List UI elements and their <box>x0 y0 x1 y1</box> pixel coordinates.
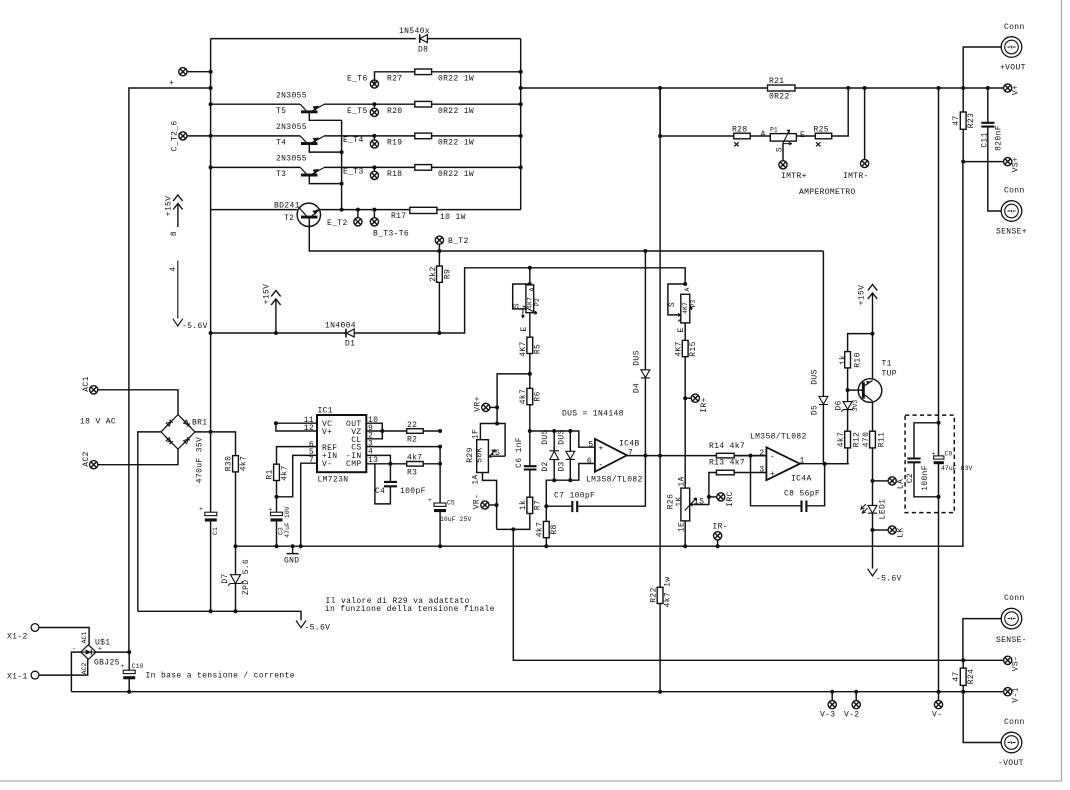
svg-text:IC4A: IC4A <box>791 475 812 484</box>
terminal X1-2 <box>31 624 39 632</box>
transistor T3 <box>209 155 344 186</box>
wire R6 bottom junction <box>529 405 531 467</box>
svg-text:D1: D1 <box>345 340 355 349</box>
trimmer R29 <box>466 422 505 485</box>
svg-text:8: 8 <box>170 231 179 236</box>
wire VS+ row <box>963 161 1003 163</box>
resistor R12 <box>845 431 851 448</box>
wire <box>98 390 178 415</box>
svg-text:P2: P2 <box>534 298 541 306</box>
transistor T4 <box>211 123 344 154</box>
svg-text:4K7: 4K7 <box>519 341 528 356</box>
wire right bus <box>520 39 522 210</box>
node V-2 <box>855 692 857 701</box>
svg-text:CMP: CMP <box>346 460 361 469</box>
wire SENSE+ <box>988 162 1001 211</box>
svg-text:-: - <box>770 453 775 462</box>
svg-text:BR1: BR1 <box>192 419 207 428</box>
wire P2/P3 feed row <box>530 268 685 284</box>
resistor R13 <box>716 470 734 475</box>
svg-text:E_T5: E_T5 <box>347 107 368 116</box>
wire <box>187 71 211 73</box>
svg-text:AC1: AC1 <box>82 376 91 391</box>
wire R13 feed <box>709 473 717 497</box>
svg-text:LM358/TL082: LM358/TL082 <box>586 476 643 485</box>
svg-text:X1-1: X1-1 <box>7 673 28 682</box>
wire C6 bottom to R7 <box>529 470 531 498</box>
svg-text:P3: P3 <box>690 300 697 308</box>
zener D6 <box>835 390 860 431</box>
svg-text:R13 4k7: R13 4k7 <box>709 459 745 468</box>
wire pin4 bracket <box>366 455 390 463</box>
bridge rectifier BR1 <box>161 415 207 450</box>
svg-text:R14 4k7: R14 4k7 <box>709 442 745 451</box>
node V- <box>938 692 940 701</box>
node E_T5 <box>373 104 375 108</box>
resistor R28 <box>734 133 750 139</box>
svg-text:+: + <box>770 470 775 479</box>
wire R29 1A to VR- <box>483 473 497 530</box>
svg-text:47uF 10V: 47uF 10V <box>284 506 291 538</box>
wire T3 emitter row <box>324 166 521 168</box>
wire base row to D5 column <box>439 250 823 252</box>
svg-text:T1: T1 <box>882 360 892 369</box>
svg-text:LK: LK <box>897 527 906 537</box>
resistor R17 <box>410 207 437 213</box>
wire P2 to R5 <box>529 313 531 338</box>
wire +VOUT <box>963 47 1001 88</box>
resistor R22 <box>657 587 663 603</box>
svg-text:C1: C1 <box>212 527 219 535</box>
wire LED to LK row <box>872 513 874 568</box>
capacitor C1 <box>205 512 217 515</box>
svg-text:AC2: AC2 <box>81 663 88 675</box>
svg-text:R23: R23 <box>967 113 976 128</box>
svg-text:0R22 1W: 0R22 1W <box>438 139 474 148</box>
wire C3 bottom <box>276 522 278 547</box>
node IR- <box>714 532 722 540</box>
svg-text:1A: 1A <box>678 476 687 486</box>
svg-text:VS-: VS- <box>1012 656 1021 671</box>
svg-text:V-: V- <box>322 460 332 469</box>
terminal X1-1 <box>31 671 39 679</box>
svg-text:C8 56pF: C8 56pF <box>784 490 820 499</box>
wire IC4A out <box>800 463 849 465</box>
wire VS+/R23 column down to gnd bus <box>962 162 964 547</box>
svg-text:10 1W: 10 1W <box>440 213 466 222</box>
svg-text:+: + <box>169 79 174 88</box>
LED LED1 <box>861 499 888 520</box>
svg-text:4k7: 4k7 <box>519 389 528 404</box>
resistor R10 <box>848 334 873 391</box>
diode D8 <box>399 27 430 55</box>
svg-text:BD241: BD241 <box>274 202 300 211</box>
wire -VOUT <box>963 692 1001 743</box>
svg-text:1S: 1S <box>694 498 704 507</box>
wire <box>660 88 848 136</box>
wire R1 bottom <box>276 481 278 514</box>
trimmer P3 <box>668 282 697 333</box>
svg-text:R19: R19 <box>387 139 402 148</box>
wire R12 bottom to out row <box>825 448 848 464</box>
svg-text:1k: 1k <box>519 500 528 510</box>
supply +15V arrow left <box>165 195 183 236</box>
svg-text:R3: R3 <box>407 469 417 478</box>
svg-text:R12: R12 <box>853 432 862 447</box>
svg-text:1N540x: 1N540x <box>399 27 430 36</box>
svg-text:4K7: 4K7 <box>682 302 689 314</box>
svg-text:4k7: 4k7 <box>281 465 290 480</box>
wire T5 emitter row <box>324 103 521 105</box>
node AC1 <box>90 386 98 394</box>
svg-text:VR+: VR+ <box>474 396 483 411</box>
wire pin10/9/2 bracket <box>366 423 382 439</box>
node B_T3-T6 <box>372 208 376 212</box>
svg-text:R15: R15 <box>689 341 698 356</box>
wire R7 bottom / VR- row <box>497 514 530 530</box>
node AC2 <box>90 461 98 469</box>
svg-text:LED1: LED1 <box>879 499 888 520</box>
resistor R15 <box>682 340 688 356</box>
svg-text:R18: R18 <box>387 170 402 179</box>
wire C1 bottom <box>210 522 212 612</box>
supply -5.6V arrow <box>868 569 878 576</box>
connector SENSE- <box>1001 608 1022 629</box>
op-amp IC4B <box>586 439 643 485</box>
diode D2 <box>541 429 559 480</box>
resistor R5 <box>527 337 533 353</box>
svg-text:+15V: +15V <box>165 196 174 217</box>
svg-text:IMTR-: IMTR- <box>843 172 869 181</box>
svg-text:3: 3 <box>759 465 764 474</box>
pin 4 stub to -5.6V <box>169 261 208 331</box>
wire VS- long column <box>513 529 1003 660</box>
svg-text:IC4B: IC4B <box>619 440 640 449</box>
wire R8 <box>545 506 547 546</box>
transistor T2 <box>211 202 440 252</box>
svg-text:GND: GND <box>284 557 299 566</box>
svg-text:+: + <box>199 506 203 513</box>
svg-text:AMPEROMETRO: AMPEROMETRO <box>799 188 856 197</box>
svg-text:R10: R10 <box>854 352 863 367</box>
supply -5.6V arrow <box>296 621 306 628</box>
svg-text:IR-: IR- <box>713 523 728 532</box>
svg-text:D5: D5 <box>811 405 820 415</box>
svg-text:P1: P1 <box>770 127 778 134</box>
svg-text:4k7: 4k7 <box>240 456 249 471</box>
wire D1 row <box>211 268 530 333</box>
svg-text:470: 470 <box>862 432 871 447</box>
svg-text:-5.6V: -5.6V <box>182 322 208 331</box>
svg-text:2N3055: 2N3055 <box>276 123 307 132</box>
wire R5-R6 junction <box>529 354 531 389</box>
svg-text:Conn: Conn <box>1004 718 1025 727</box>
svg-text:R30: R30 <box>225 456 234 471</box>
svg-text:SENSE+: SENSE+ <box>996 228 1027 237</box>
svg-text:A: A <box>684 287 691 291</box>
svg-text:VS+: VS+ <box>1012 157 1021 172</box>
svg-text:DUS: DUS <box>811 369 820 384</box>
svg-text:AC2: AC2 <box>82 451 91 466</box>
svg-text:R9: R9 <box>444 269 453 279</box>
wire main column down <box>210 333 212 513</box>
svg-text:E_T4: E_T4 <box>343 136 364 145</box>
wire pin6 row <box>546 464 595 507</box>
svg-text:LA: LA <box>897 479 906 489</box>
svg-text:B_T2: B_T2 <box>448 237 469 246</box>
svg-text:1K: 1K <box>675 496 684 506</box>
wire V- bus <box>71 691 1003 693</box>
svg-text:0R22 1W: 0R22 1W <box>438 75 474 84</box>
wire P3 to R15 <box>684 323 686 341</box>
svg-text:Conn: Conn <box>1004 23 1025 32</box>
capacitor C9 <box>934 456 944 459</box>
svg-text:2k2: 2k2 <box>429 266 438 281</box>
resistor R24 <box>962 660 964 691</box>
wire top row <box>211 38 521 40</box>
svg-text:4: 4 <box>169 266 178 271</box>
node IRC <box>707 495 711 499</box>
svg-text:DUS: DUS <box>633 350 642 365</box>
resistor R9 <box>438 251 440 333</box>
wire U$1 plus <box>96 651 129 653</box>
svg-text:T5: T5 <box>276 107 286 116</box>
capacitor C2 <box>914 423 939 497</box>
wire SENSE- <box>963 619 1001 661</box>
svg-text:-5.6V: -5.6V <box>305 624 331 633</box>
capacitor C6 <box>524 466 537 469</box>
capacitor C4 <box>375 464 391 504</box>
resistor R7 <box>527 497 533 513</box>
svg-text:R28: R28 <box>732 126 747 135</box>
wire <box>187 135 211 137</box>
wire pin7 <box>301 463 317 546</box>
wire BR1 plus row <box>195 432 236 456</box>
svg-text:4K7: 4K7 <box>526 297 533 309</box>
svg-text:C10: C10 <box>132 663 144 670</box>
svg-text:B_T3-T6: B_T3-T6 <box>373 230 409 239</box>
trimmer P2 <box>513 268 541 332</box>
svg-text:+: + <box>269 507 273 514</box>
diode D5 <box>811 251 828 464</box>
svg-text:T4: T4 <box>276 139 286 148</box>
wire T1 collector <box>872 402 874 431</box>
resistor R25 <box>815 133 831 139</box>
wire pin3 CS <box>366 446 440 448</box>
wire R30 bottom to gnd bus <box>235 472 237 574</box>
svg-text:+: + <box>121 663 125 670</box>
capacitor C5 <box>439 447 441 547</box>
svg-text:R29: R29 <box>466 447 475 462</box>
wire T2 emitter row <box>320 209 520 211</box>
dashed box <box>905 415 954 512</box>
capacitor C10 <box>128 652 130 692</box>
wire V+ bus <box>521 87 1004 89</box>
svg-text:E: E <box>800 131 805 140</box>
svg-text:4k7: 4k7 <box>837 432 846 447</box>
node IMTR- <box>864 88 866 159</box>
svg-text:R5: R5 <box>534 344 543 354</box>
diode D3 <box>558 429 575 480</box>
svg-text:4k7: 4k7 <box>536 522 545 537</box>
svg-text:LM358/TL082: LM358/TL082 <box>750 433 807 442</box>
node E_T6 <box>370 80 378 88</box>
svg-text:R11: R11 <box>878 432 887 447</box>
svg-text:DUS: DUS <box>558 429 567 444</box>
svg-text:Conn: Conn <box>1004 594 1025 603</box>
svg-text:2N3055: 2N3055 <box>276 92 307 101</box>
node IMTR+ <box>782 144 784 161</box>
resistor R19 <box>415 133 432 139</box>
wire x660 column <box>659 88 661 692</box>
wire gnd bus <box>236 545 963 546</box>
resistor R23 <box>962 88 964 162</box>
svg-text:T2: T2 <box>284 214 294 223</box>
wire D7 bottom / -5.6V row <box>138 584 301 621</box>
svg-text:V-1: V-1 <box>1012 687 1021 702</box>
bridge U$1 <box>72 632 120 675</box>
svg-text:D2: D2 <box>541 461 550 471</box>
supply +15V arrow T1 <box>858 285 878 379</box>
resistor R18 <box>415 165 432 171</box>
wire <box>938 88 940 692</box>
svg-text:0R22 1W: 0R22 1W <box>438 170 474 179</box>
node E_T4 <box>373 136 375 140</box>
svg-text:VR-: VR- <box>473 494 482 509</box>
svg-text:V+: V+ <box>1012 85 1021 95</box>
svg-text:100nF: 100nF <box>921 465 930 491</box>
resistor R2 <box>382 430 440 432</box>
svg-text:R21: R21 <box>769 77 784 86</box>
wire <box>129 88 211 652</box>
op-amp IC4A <box>750 433 812 484</box>
wire <box>98 449 178 465</box>
trimmer R26 <box>667 476 709 532</box>
node B_T2 <box>437 249 441 253</box>
svg-text:In base a tensione / corrente: In base a tensione / corrente <box>146 672 295 681</box>
svg-text:R7: R7 <box>534 500 543 510</box>
wire IC4B out row <box>627 455 767 457</box>
svg-text:C5: C5 <box>447 500 455 507</box>
svg-text:+15V: +15V <box>263 284 272 305</box>
svg-text:3V3: 3V3 <box>852 400 859 412</box>
svg-text:LM723N: LM723N <box>318 476 349 485</box>
svg-text:Conn: Conn <box>1004 187 1025 196</box>
node E_T3 <box>373 167 375 171</box>
svg-text:R22: R22 <box>650 587 659 602</box>
svg-text:S: S <box>668 302 677 307</box>
svg-text:SENSE-: SENSE- <box>996 636 1027 645</box>
wire R26 bottom to gnd bus <box>684 521 686 546</box>
svg-text:2: 2 <box>759 449 764 458</box>
node VR+ <box>490 406 497 408</box>
wire R11 bottom <box>872 448 874 505</box>
capacitor C8 <box>751 456 825 506</box>
svg-text:E_T6: E_T6 <box>347 75 368 84</box>
svg-text:D6: D6 <box>835 400 844 410</box>
node E_T2 <box>356 208 360 212</box>
svg-text:E: E <box>520 326 529 331</box>
svg-text:+: + <box>428 497 432 504</box>
svg-text:2N3055: 2N3055 <box>276 155 307 164</box>
wire VR+ branch <box>497 374 530 424</box>
svg-text:in funzione della tensione fin: in funzione della tensione finale <box>325 605 495 614</box>
wire R15 bottom to R26 <box>684 357 686 488</box>
connector SENSE+ <box>1001 201 1022 222</box>
wire pin6 REF <box>277 447 318 465</box>
svg-text:50K: 50K <box>476 447 485 462</box>
wire R13 to pin3 <box>734 472 766 474</box>
svg-text:+VOUT: +VOUT <box>1000 64 1026 73</box>
svg-text:D8: D8 <box>418 46 428 55</box>
svg-text:1S: 1S <box>490 449 500 458</box>
svg-text:820nF: 820nF <box>995 125 1004 151</box>
wire E_T6 row <box>375 72 521 83</box>
node V+ <box>1004 84 1012 92</box>
svg-text:-: - <box>599 461 604 470</box>
wire T4 emitter row <box>324 135 521 137</box>
svg-text:IRC: IRC <box>726 491 735 506</box>
diode D1 <box>325 322 356 349</box>
svg-text:47: 47 <box>952 671 961 681</box>
svg-text:+: + <box>599 445 604 454</box>
svg-text:R25: R25 <box>814 126 829 135</box>
node VS+ <box>1004 158 1012 166</box>
svg-text:A: A <box>761 130 766 139</box>
svg-text:R20: R20 <box>387 107 402 116</box>
svg-text:1A: 1A <box>472 474 481 484</box>
svg-text:V-3: V-3 <box>820 711 835 720</box>
svg-text:X1-2: X1-2 <box>7 633 28 642</box>
ground GND <box>284 546 299 565</box>
resistor R30 <box>233 456 239 472</box>
svg-text:6: 6 <box>587 457 592 466</box>
svg-text:V+: V+ <box>322 428 332 437</box>
svg-text:4K7: 4K7 <box>675 341 684 356</box>
svg-text:GBJ25: GBJ25 <box>94 659 120 668</box>
svg-text:R27: R27 <box>387 75 402 84</box>
svg-text:D3: D3 <box>558 461 567 471</box>
diode D4 <box>633 251 650 456</box>
resistor R20 <box>415 101 432 107</box>
svg-text:DUS: DUS <box>541 429 550 444</box>
svg-text:A: A <box>529 287 536 291</box>
svg-text:470uF 35V: 470uF 35V <box>196 437 205 483</box>
node LK <box>873 529 889 531</box>
svg-text:R1: R1 <box>266 469 275 479</box>
svg-text:C4: C4 <box>375 487 385 496</box>
svg-text:E_T2: E_T2 <box>327 219 348 228</box>
node + <box>179 68 187 76</box>
svg-text:S: S <box>513 303 522 308</box>
wire R14 to pin2 <box>734 455 766 457</box>
wire <box>39 628 89 645</box>
resistor R21 <box>768 85 796 91</box>
node C_T2_6 <box>179 132 187 140</box>
svg-text:+: + <box>932 451 936 458</box>
svg-text:100pF: 100pF <box>400 487 426 496</box>
capacitor C3 <box>271 512 283 515</box>
svg-text:47: 47 <box>952 115 961 125</box>
svg-text:E_T3: E_T3 <box>343 168 364 177</box>
svg-text:0R22: 0R22 <box>769 93 790 102</box>
wire left bus <box>210 39 212 333</box>
svg-text:DUS = 1N4148: DUS = 1N4148 <box>562 410 624 419</box>
node V-1 <box>1004 688 1012 696</box>
svg-text:T3: T3 <box>276 170 286 179</box>
transistor T1 <box>848 360 897 403</box>
IC1 box <box>317 415 366 472</box>
